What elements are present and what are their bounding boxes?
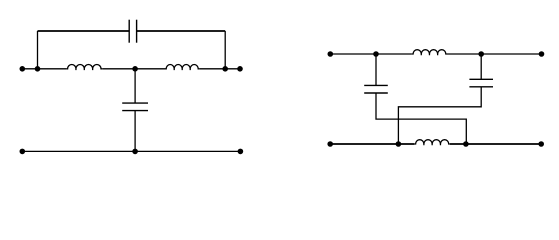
wire: between L1 and L2 xyxy=(102,68,165,70)
wire: left T-filter top rail, left segment xyxy=(38,30,130,32)
wire: shunt capacitor down to ground rail xyxy=(134,111,136,152)
inductor L2 (right series inductor) xyxy=(165,65,199,71)
wire: lead from top rail down to capacitor C4 xyxy=(480,54,482,79)
inductor L3 (series inductor, top rail) xyxy=(412,50,447,56)
wire: C4 bottom lead routed left then down to bottom rail xyxy=(398,87,481,144)
node: ground junction below shunt capacitor xyxy=(132,149,138,155)
node: input terminal (right circuit, top left) xyxy=(328,51,334,57)
node: terminal (right circuit, bottom left) xyxy=(327,141,333,147)
capacitor C1 (series, top rail of T-filter) xyxy=(129,20,136,43)
capacitor C4 (right shunt capacitor) xyxy=(469,79,493,87)
wire: left circuit bottom ground rail xyxy=(22,150,240,152)
node: junction at left riser xyxy=(35,66,41,72)
capacitor C2 (shunt capacitor of T-filter) xyxy=(122,103,148,111)
wire: center tap down to shunt capacitor xyxy=(134,69,136,103)
wire: right circuit top rail, right segment xyxy=(447,53,542,55)
wire: C3 bottom lead routed right then down to bottom rail xyxy=(376,93,466,144)
node: input terminal (left circuit, top left) xyxy=(20,66,26,72)
inductor L4 (series inductor, bottom rail) xyxy=(414,140,450,146)
wire: left riser from input node to top rail xyxy=(37,31,39,69)
node: output terminal (right circuit, top right) xyxy=(539,51,545,57)
node: center tap junction xyxy=(132,66,138,72)
wire: left T-filter top rail, right segment xyxy=(137,30,226,32)
capacitor C3 (left shunt capacitor) xyxy=(364,85,388,93)
node: output terminal (left circuit, top right) xyxy=(237,66,243,72)
node: ground terminal (left circuit, bottom left) xyxy=(20,149,26,155)
wire: input lead to inductor L1 xyxy=(22,68,66,70)
node: terminal (right circuit, bottom right) xyxy=(538,141,544,147)
node: junction above capacitor C3 xyxy=(373,51,379,57)
wire: lead from top rail down to capacitor C3 xyxy=(375,54,377,85)
wire: right circuit bottom rail, left segment xyxy=(330,143,414,145)
node: junction at right riser xyxy=(222,66,228,72)
inductor L1 (left series inductor) xyxy=(66,64,102,70)
wire: right riser from output node to top rail xyxy=(224,31,226,69)
wire: L2 to output terminal xyxy=(199,68,240,70)
node: junction at bottom rail right of L4 xyxy=(463,141,469,147)
node: junction above capacitor C4 xyxy=(478,51,484,57)
node: ground terminal (left circuit, bottom right) xyxy=(238,149,244,155)
node: junction at bottom rail left of L4 xyxy=(396,141,402,147)
wire: right circuit top rail, left segment xyxy=(330,53,412,55)
wire: right circuit bottom rail, right segment xyxy=(450,143,541,145)
